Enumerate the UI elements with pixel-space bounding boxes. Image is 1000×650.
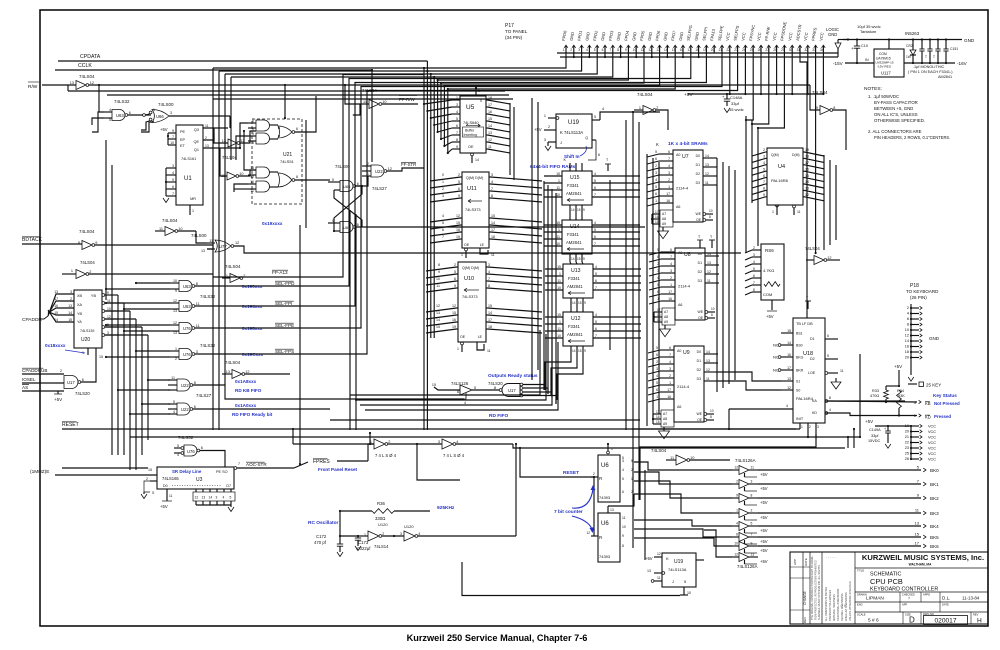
svg-text:6: 6	[763, 174, 765, 178]
svg-text:9: 9	[583, 257, 585, 261]
svg-text:1: 1	[639, 106, 641, 110]
svg-text:1: 1	[192, 209, 194, 213]
svg-text:BK6: BK6	[930, 544, 939, 549]
svg-text:5: 5	[594, 179, 596, 183]
svg-text:14: 14	[705, 154, 709, 158]
svg-text:4: 4	[786, 404, 788, 408]
svg-text:74LS27: 74LS27	[196, 393, 212, 398]
svg-text:SR Delay Line: SR Delay Line	[172, 469, 202, 474]
svg-text:17: 17	[668, 290, 672, 294]
svg-text:12: 12	[245, 370, 249, 374]
svg-text:.1μf MONOLITHIC: .1μf MONOLITHIC	[913, 65, 945, 69]
wire U4 right fan	[803, 151, 805, 153]
svg-text:1: 1	[175, 347, 177, 351]
svg-text:11: 11	[107, 299, 111, 303]
svg-text:U11: U11	[467, 186, 477, 192]
regulator U117	[874, 49, 904, 77]
svg-text:19: 19	[456, 235, 460, 239]
wire fifo nested corners	[350, 330, 540, 395]
svg-text:3: 3	[170, 111, 172, 115]
svg-text:15: 15	[488, 117, 492, 121]
svg-text:3: 3	[669, 367, 671, 371]
svg-text:17: 17	[915, 541, 920, 546]
wire U18 INIT route	[729, 408, 793, 410]
svg-text:6: 6	[456, 124, 458, 128]
svg-text:1: 1	[478, 89, 480, 93]
svg-text:17: 17	[667, 388, 671, 392]
svg-text:9: 9	[95, 241, 97, 245]
svg-text:33: 33	[812, 48, 816, 52]
wire P17 upper signal routes	[746, 53, 753, 120]
svg-text:COM: COM	[763, 292, 772, 297]
svg-text:Inverting: Inverting	[464, 133, 477, 137]
wire U3 left pins	[150, 480, 157, 482]
svg-text:18: 18	[488, 96, 492, 100]
svg-text:U19: U19	[674, 559, 683, 565]
svg-text:10: 10	[170, 141, 174, 145]
gnd U1	[163, 198, 169, 203]
svg-text:14: 14	[572, 349, 576, 353]
svg-text:12: 12	[250, 175, 254, 179]
svg-text:4: 4	[595, 313, 597, 317]
svg-text:15: 15	[54, 311, 58, 315]
svg-text:Tantalum: Tantalum	[860, 29, 877, 34]
wire BK1 line	[758, 483, 921, 485]
svg-text:SCALE: SCALE	[857, 613, 866, 617]
svg-text:F3341: F3341	[567, 183, 580, 188]
svg-text:GND: GND	[929, 336, 940, 341]
svg-text:13: 13	[173, 309, 177, 313]
svg-text:8: 8	[494, 385, 496, 390]
svg-text:1: 1	[656, 395, 658, 399]
svg-text:NOTES:: NOTES:	[864, 86, 882, 92]
svg-text:14: 14	[571, 208, 575, 212]
svg-text:?: ?	[908, 597, 910, 601]
svg-text:16: 16	[787, 353, 791, 357]
svg-text:12: 12	[734, 466, 738, 470]
svg-text:4: 4	[418, 532, 420, 536]
svg-text:WE: WE	[696, 212, 702, 216]
svg-text:7: 7	[456, 131, 458, 135]
svg-text:-15V: -15V	[833, 61, 844, 66]
svg-text:9: 9	[584, 301, 586, 305]
svg-text:15: 15	[557, 265, 561, 269]
gate U21 OR1	[270, 124, 279, 126]
svg-text:5: 5	[655, 150, 657, 154]
gate U22a rdkb	[168, 379, 177, 381]
svg-text:WALTHAM, MA: WALTHAM, MA	[909, 563, 932, 567]
wire U77 out	[234, 246, 741, 253]
svg-text:+5V: +5V	[760, 559, 768, 564]
svg-text:14: 14	[905, 339, 909, 343]
svg-text:YB: YB	[77, 312, 83, 316]
svg-text:CPU PCB: CPU PCB	[870, 577, 903, 586]
svg-text:BK0: BK0	[930, 468, 939, 473]
svg-text:K: K	[666, 556, 669, 561]
svg-text:12: 12	[436, 304, 440, 308]
wire U4 right bus	[823, 155, 825, 250]
svg-text:15: 15	[99, 355, 103, 359]
svg-text:4: 4	[736, 522, 738, 526]
svg-text:4: 4	[172, 171, 174, 175]
svg-text:Pressed: Pressed	[934, 414, 951, 419]
svg-text:RC Oscillator: RC Oscillator	[308, 520, 339, 526]
svg-text:74LS04: 74LS04	[651, 448, 667, 453]
svg-text:RD FIFO: RD FIFO	[489, 413, 508, 419]
svg-text:31: 31	[797, 48, 801, 52]
svg-text:2: 2	[751, 509, 753, 513]
svg-text:1: 1	[558, 228, 560, 232]
svg-text:6: 6	[622, 490, 624, 494]
svg-text:+5V: +5V	[865, 419, 873, 424]
svg-text:13: 13	[68, 304, 72, 308]
ic U3 74LS164 delay	[157, 467, 234, 489]
svg-text:8: 8	[709, 215, 711, 219]
svg-text:24: 24	[742, 48, 746, 52]
svg-text:6: 6	[602, 48, 604, 52]
svg-text:6: 6	[252, 119, 254, 123]
svg-text:15: 15	[578, 301, 582, 305]
svg-text:MR: MR	[190, 197, 196, 201]
svg-text:U22: U22	[181, 407, 189, 412]
svg-text:D1: D1	[810, 337, 815, 341]
svg-text:12: 12	[734, 553, 738, 557]
svg-text:11: 11	[205, 124, 209, 128]
wire U10 left fan	[426, 267, 457, 271]
svg-text:74LS00: 74LS00	[158, 102, 174, 107]
svg-text:+5V: +5V	[54, 397, 62, 402]
svg-text:3: 3	[172, 164, 174, 168]
svg-text:A8: A8	[662, 217, 666, 221]
svg-text:R/W: R/W	[28, 84, 38, 90]
wire U19b pins	[654, 556, 662, 558]
svg-text:R33: R33	[872, 389, 879, 393]
svg-text:2: 2	[753, 246, 755, 250]
svg-text:17: 17	[54, 297, 58, 301]
capacitor psb	[929, 40, 931, 50]
wire U66 lower input	[141, 122, 154, 132]
svg-text:T: T	[925, 55, 927, 59]
wire U18 left pins	[781, 332, 793, 334]
svg-text:T: T	[933, 55, 935, 59]
svg-text:4: 4	[177, 453, 179, 457]
svg-text:A8: A8	[664, 315, 668, 319]
svg-text:11: 11	[491, 253, 495, 257]
svg-text:27: 27	[765, 48, 769, 52]
svg-text:U21: U21	[283, 152, 292, 158]
svg-text:1: 1	[736, 509, 738, 513]
svg-text:74LS51: 74LS51	[280, 159, 295, 164]
svg-text:PE SO: PE SO	[216, 470, 228, 474]
svg-text:4: 4	[464, 401, 466, 405]
svg-text:IOSEL: IOSEL	[22, 377, 36, 382]
svg-text:3: 3	[544, 138, 546, 142]
wire U21 inputs left	[240, 123, 248, 148]
wire U4 feed verticals	[751, 120, 753, 203]
svg-text:Q(M) D(M): Q(M) D(M)	[462, 266, 479, 270]
svg-text:74LS04: 74LS04	[79, 74, 95, 79]
svg-text:15: 15	[655, 220, 659, 224]
wire U15 left pins	[544, 175, 562, 177]
svg-text:14: 14	[209, 496, 213, 500]
svg-text:7 bit counter: 7 bit counter	[554, 509, 583, 515]
svg-text:D0: D0	[697, 350, 701, 354]
svg-text:3: 3	[196, 350, 198, 354]
svg-text:8: 8	[438, 263, 440, 267]
svg-text:+5V: +5V	[760, 472, 768, 477]
svg-text:11: 11	[557, 327, 561, 331]
svg-text:IN5263: IN5263	[905, 31, 920, 36]
svg-text:Shift In: Shift In	[564, 154, 580, 159]
svg-text:8: 8	[907, 323, 909, 327]
svg-text:8: 8	[617, 48, 619, 52]
wire fifo bottom routes	[545, 354, 571, 390]
wire buffer input routes	[634, 462, 732, 470]
svg-text:74LS165: 74LS165	[162, 476, 179, 481]
svg-text:4: 4	[223, 496, 225, 500]
svg-text:RD FIFO Ready bit: RD FIFO Ready bit	[232, 412, 273, 417]
wire bottom long return	[462, 562, 680, 596]
gate U22b rdfifo	[168, 403, 177, 405]
svg-text:AM2841: AM2841	[567, 332, 583, 337]
svg-text:U17: U17	[508, 388, 516, 393]
svg-text:7: 7	[594, 242, 596, 246]
svg-text:BS1: BS1	[796, 332, 803, 336]
svg-text:15: 15	[578, 349, 582, 353]
svg-text:12: 12	[586, 531, 590, 535]
svg-text:7: 7	[594, 193, 596, 197]
wire U22 out	[387, 168, 424, 171]
svg-text:12: 12	[195, 496, 199, 500]
svg-text:2: 2	[175, 357, 177, 361]
wire FPD1	[427, 53, 581, 430]
svg-text:D0: D0	[163, 484, 168, 488]
svg-text:25: 25	[905, 452, 909, 456]
ic U19 74LS113A	[556, 114, 592, 148]
wire fifo column verticals	[531, 98, 533, 380]
svg-text:32: 32	[804, 48, 808, 52]
svg-text:9: 9	[625, 48, 627, 52]
svg-text:AOC-STR: AOC-STR	[246, 462, 267, 467]
svg-text:U76: U76	[187, 449, 195, 454]
wire U9 to U18 S pins	[718, 372, 781, 381]
svg-text:GND: GND	[964, 38, 975, 43]
svg-text:D2: D2	[697, 368, 701, 372]
svg-text:4: 4	[622, 468, 624, 472]
svg-text:17: 17	[488, 318, 492, 322]
svg-text:VCC: VCC	[928, 425, 936, 429]
svg-text:12: 12	[388, 167, 392, 171]
svg-text:10: 10	[905, 328, 909, 332]
wire U6b pins	[607, 506, 609, 513]
svg-text:2114-4: 2114-4	[678, 284, 691, 289]
wire data rail left 1	[219, 70, 427, 72]
svg-text:A7: A7	[664, 310, 668, 314]
svg-text:ON ALL IC'S, UNLESS: ON ALL IC'S, UNLESS	[874, 112, 918, 117]
svg-text:U117: U117	[881, 71, 891, 76]
svg-text:15 wvdc: 15 wvdc	[729, 107, 744, 112]
wire U20 out routing	[117, 295, 119, 455]
svg-text:5: 5	[763, 167, 765, 171]
svg-text:11: 11	[840, 369, 844, 373]
wire reg top pin	[888, 40, 890, 50]
wire T pullup d	[807, 301, 809, 309]
svg-text:12: 12	[456, 214, 460, 218]
resistor network RS6	[761, 244, 784, 300]
svg-text:12: 12	[107, 315, 111, 319]
wire left vertical bus	[105, 140, 107, 300]
wire T pullup a	[607, 164, 609, 171]
wire U3 out	[236, 467, 294, 469]
svg-text:U14: U14	[570, 224, 580, 230]
wire U19 pins	[548, 117, 556, 119]
svg-text:6: 6	[172, 185, 174, 189]
wire gate feedback	[92, 112, 104, 132]
svg-text:11: 11	[657, 576, 661, 580]
svg-text:1: 1	[655, 199, 657, 203]
svg-text:74LS113A: 74LS113A	[668, 567, 687, 572]
svg-text:1: 1	[669, 381, 671, 385]
svg-text:6: 6	[668, 150, 670, 154]
svg-text:WE: WE	[698, 310, 704, 314]
wire U13 bottom pins	[570, 298, 572, 306]
svg-text:AM2841: AM2841	[566, 191, 582, 196]
svg-text:14: 14	[68, 311, 72, 315]
svg-text:5: 5	[454, 270, 456, 274]
wire U7 data pins	[703, 157, 717, 159]
svg-text:33μf: 33μf	[731, 101, 740, 106]
wire P17 header rail	[557, 52, 838, 54]
svg-text:19: 19	[452, 325, 456, 329]
svg-text:74LS373: 74LS373	[462, 294, 478, 299]
svg-text:DATE: DATE	[942, 603, 949, 607]
svg-text:1: 1	[559, 320, 561, 324]
svg-text:74LS640: 74LS640	[463, 120, 479, 125]
svg-text:D: D	[909, 616, 915, 625]
wire RS6 +5V	[771, 300, 773, 310]
svg-text:1: 1	[668, 185, 670, 189]
svg-text:CHANGE: CHANGE	[803, 591, 807, 605]
svg-text:15: 15	[577, 257, 581, 261]
svg-text:4: 4	[488, 270, 490, 274]
wire R/W long right	[285, 84, 810, 86]
ic U11 74LS373	[462, 172, 489, 248]
svg-text:AM2841: AM2841	[566, 240, 582, 245]
svg-text:9: 9	[454, 284, 456, 288]
svg-text:RESET: RESET	[563, 470, 579, 476]
wire U12 right pins	[593, 316, 641, 318]
svg-text:8: 8	[78, 241, 80, 245]
svg-text:16: 16	[905, 345, 909, 349]
wire osc junction	[357, 535, 359, 537]
svg-text:10: 10	[178, 227, 182, 231]
svg-text:1: 1	[611, 447, 613, 451]
svg-text:PIN HEADERS, 2 ROWS, 0.1"CENTE: PIN HEADERS, 2 ROWS, 0.1"CENTERS.	[874, 135, 950, 140]
wire long mid verticals	[632, 112, 634, 548]
svg-text:14: 14	[572, 301, 576, 305]
svg-text:6: 6	[594, 235, 596, 239]
svg-text:2: 2	[89, 270, 91, 274]
ic U6 74393 a	[598, 455, 620, 502]
svg-text:APP: APP	[902, 603, 907, 607]
svg-text:6: 6	[656, 388, 658, 392]
svg-text:7: 7	[763, 180, 765, 184]
wire FFRW down	[353, 104, 360, 115]
svg-text:2: 2	[205, 136, 207, 140]
svg-text:10: 10	[173, 279, 177, 283]
svg-text:D2: D2	[810, 357, 815, 361]
svg-text:15: 15	[68, 318, 72, 322]
svg-text:74LS04: 74LS04	[79, 229, 95, 234]
svg-text:1: 1	[457, 347, 459, 351]
svg-text:74LS04: 74LS04	[222, 155, 237, 160]
wire U20 outputs	[102, 294, 105, 297]
svg-text:14: 14	[54, 318, 58, 322]
wire RW branch	[344, 84, 346, 86]
svg-text:7: 7	[238, 462, 240, 466]
svg-text:3: 3	[438, 440, 440, 444]
svg-text:1: 1	[558, 179, 560, 183]
svg-text:5: 5	[252, 141, 254, 145]
svg-text:3: 3	[488, 263, 490, 267]
svg-text:12: 12	[657, 552, 661, 556]
wire U7 left fan	[647, 154, 659, 157]
svg-text:74LS126A: 74LS126A	[737, 564, 758, 569]
svg-text:A0: A0	[677, 349, 681, 353]
svg-text:5: 5	[442, 221, 444, 225]
svg-text:11: 11	[705, 181, 709, 185]
svg-text:TO PANEL: TO PANEL	[505, 29, 528, 34]
svg-text:4: 4	[670, 262, 672, 266]
svg-text:U22: U22	[375, 169, 383, 174]
svg-text:7: 7	[751, 533, 753, 537]
svg-text:15: 15	[148, 468, 152, 472]
svg-text:9: 9	[763, 193, 765, 197]
svg-text:14: 14	[475, 158, 479, 162]
svg-text:BY-PASS CAPACITOR: BY-PASS CAPACITOR	[874, 100, 918, 105]
svg-text:U22: U22	[181, 383, 189, 388]
svg-text:4: 4	[753, 260, 755, 264]
svg-text:7: 7	[172, 192, 174, 196]
ic U14 F3341	[562, 220, 592, 254]
svg-text:0x1A0xxx: 0x1A0xxx	[235, 403, 257, 408]
wire ADCSTR drop	[800, 53, 807, 318]
svg-text:13: 13	[915, 521, 920, 526]
svg-text:16: 16	[456, 228, 460, 232]
svg-text:K 74LS113A: K 74LS113A	[560, 130, 583, 135]
svg-text:10: 10	[687, 591, 691, 595]
svg-text:D1: D1	[698, 261, 702, 265]
svg-text:6: 6	[296, 127, 298, 131]
svg-text:AS: AS	[22, 385, 28, 390]
svg-text:U17: U17	[67, 380, 75, 385]
wire U17 out to U20	[81, 366, 96, 382]
gnd U7	[658, 231, 669, 239]
svg-text:OE: OE	[697, 418, 703, 422]
wire reset to U6	[520, 448, 594, 477]
svg-text:10: 10	[239, 172, 243, 176]
svg-text:13: 13	[54, 290, 58, 294]
gnd U18	[831, 382, 841, 389]
svg-text:2: 2	[570, 48, 572, 52]
wire U11 right fan	[489, 176, 491, 178]
svg-text:C149A: C149A	[869, 428, 881, 432]
gate U63a 74LS32 seldec	[170, 282, 179, 284]
svg-text:S0: S0	[796, 389, 800, 393]
svg-text:YB: YB	[91, 294, 97, 298]
svg-text:3: 3	[670, 269, 672, 273]
svg-text:OE: OE	[460, 335, 466, 339]
